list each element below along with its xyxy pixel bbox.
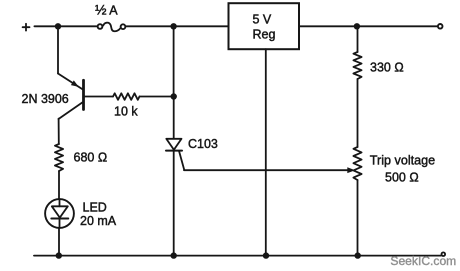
node bottom LED junction [56, 252, 62, 258]
label LED 20 mA [80, 200, 117, 228]
svg-text:Reg: Reg [253, 27, 276, 41]
SCR Q2 C103 [166, 139, 184, 170]
svg-text:C103: C103 [188, 137, 218, 151]
wire gate to potentiometer wiper with arrowhead [184, 167, 355, 173]
svg-text:500 Ω: 500 Ω [385, 170, 419, 184]
resistor R1 10 k [113, 93, 140, 100]
svg-text:680 Ω: 680 Ω [74, 150, 108, 164]
svg-text:5 V: 5 V [253, 13, 272, 27]
negative output terminal open circle [442, 252, 446, 256]
wire SCR cathode to bottom rail [173, 151, 175, 256]
svg-text:½ A: ½ A [95, 3, 118, 18]
label Trip voltage 500 ohm [370, 153, 435, 184]
wire node to transistor emitter [57, 26, 59, 73]
node bottom SCR junction [171, 252, 177, 258]
wire 10k to junction node [140, 96, 174, 98]
fuse F1 half-amp [98, 23, 126, 32]
output terminal open circle [438, 24, 443, 29]
svg-text:LED: LED [83, 200, 107, 214]
wire LED to bottom rail [58, 228, 60, 256]
wire 5V Reg ground lead [265, 49, 267, 255]
wire 330 to potentiometer [357, 79, 359, 147]
node top-right junction [354, 23, 360, 29]
node top-middle junction [170, 23, 176, 29]
svg-text:Trip voltage: Trip voltage [370, 153, 435, 167]
transistor Q1 2N3906 PNP [58, 74, 84, 120]
node top-left junction [55, 23, 61, 29]
resistor R2 680 ohm [55, 144, 63, 171]
node bottom potentiometer junction [355, 252, 361, 258]
wire node down to SCR anode [173, 97, 175, 139]
node bottom regulator junction [263, 252, 269, 258]
voltage regulator U1 5 V Reg [229, 3, 300, 49]
LED D1 [45, 199, 74, 228]
wire bottom rail [34, 255, 441, 257]
svg-text:2N 3906: 2N 3906 [22, 92, 69, 106]
svg-text:10 k: 10 k [114, 105, 138, 119]
node base-divider junction [171, 93, 177, 99]
wire potentiometer to bottom rail [357, 180, 359, 256]
wire 5V Reg output to terminal [299, 25, 437, 27]
wire fuse to 5V Reg [126, 25, 228, 27]
wire base to 10k [85, 96, 114, 98]
wire top-right node down to 330 [357, 26, 359, 52]
wire 680 to LED [58, 171, 60, 199]
wire collector to 680 resistor [58, 119, 60, 144]
wire top rail from + to fuse [34, 25, 96, 27]
svg-text:SeekIC.com: SeekIC.com [390, 254, 456, 268]
svg-text:330 Ω: 330 Ω [370, 60, 404, 74]
resistor R3 330 ohm [353, 52, 361, 79]
+ input terminal [23, 24, 30, 31]
potentiometer R4 trip voltage 500 ohm [353, 147, 361, 180]
wire top rail down to base node [173, 26, 175, 96]
svg-text:20 mA: 20 mA [80, 214, 117, 228]
